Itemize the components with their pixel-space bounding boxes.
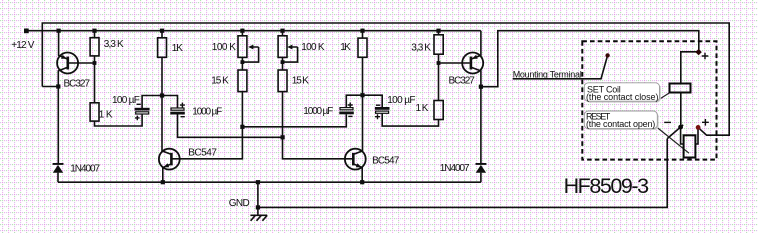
svg-text:(the contact close): (the contact close): [586, 92, 659, 102]
svg-text:1 K: 1 K: [416, 103, 429, 114]
svg-text:3,3 K: 3,3 K: [104, 39, 124, 50]
svg-text:100 µF: 100 µF: [112, 95, 140, 106]
svg-text:1 K: 1 K: [99, 110, 113, 121]
svg-text:1000 µF: 1000 µF: [303, 106, 333, 117]
svg-text:100 K: 100 K: [301, 42, 325, 53]
svg-text:HF8509-3: HF8509-3: [564, 174, 649, 198]
svg-text:BC547: BC547: [188, 147, 217, 158]
svg-text:3,3 K: 3,3 K: [411, 43, 431, 54]
svg-text:GND: GND: [229, 198, 250, 209]
svg-text:1N4007: 1N4007: [70, 163, 100, 174]
svg-text:100 K: 100 K: [212, 42, 236, 53]
svg-text:100 µF: 100 µF: [387, 95, 415, 106]
svg-text:1000 µF: 1000 µF: [192, 106, 222, 117]
svg-text:15 K: 15 K: [292, 76, 309, 87]
svg-text:Mounting Terminal: Mounting Terminal: [513, 70, 582, 80]
svg-text:BC547: BC547: [372, 155, 400, 166]
svg-text:15 K: 15 K: [211, 76, 229, 87]
svg-text:BC327: BC327: [449, 76, 476, 87]
svg-text:1K: 1K: [172, 43, 184, 54]
svg-text:BC327: BC327: [64, 78, 91, 89]
svg-text:1N4007: 1N4007: [440, 163, 470, 174]
svg-text:+12 V: +12 V: [11, 40, 35, 51]
svg-text:(the contact open): (the contact open): [586, 119, 655, 129]
svg-text:1K: 1K: [340, 42, 351, 53]
